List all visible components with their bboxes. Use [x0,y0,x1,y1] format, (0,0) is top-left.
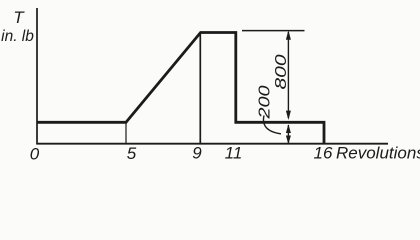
svg-text:0: 0 [30,145,40,162]
svg-text:11: 11 [225,144,243,162]
svg-text:T: T [13,8,25,27]
svg-text:5: 5 [127,144,137,161]
svg-text:in. lb: in. lb [1,28,34,45]
svg-text:9: 9 [192,144,202,162]
svg-text:Revolutions: Revolutions [336,144,420,162]
svg-text:200: 200 [256,85,273,119]
svg-text:800: 800 [273,54,290,89]
svg-text:16: 16 [314,144,333,162]
